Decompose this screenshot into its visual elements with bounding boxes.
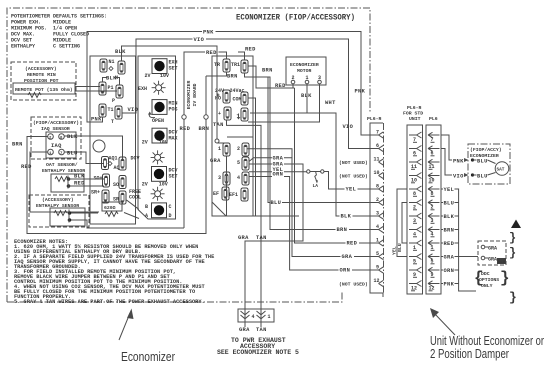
- svg-text:TAN: TAN: [256, 235, 267, 241]
- svg-text:BRN: BRN: [444, 228, 455, 234]
- svg-text:MOTOR: MOTOR: [297, 68, 312, 74]
- svg-text:3: 3: [318, 75, 321, 81]
- svg-text:REMOTE POT (135 Ohm): REMOTE POT (135 Ohm): [15, 87, 73, 93]
- std unit pin 10: [409, 173, 422, 184]
- PL6 pin 4: [428, 227, 440, 238]
- plug circle on BLK wire: [215, 139, 219, 143]
- svg-text:}: }: [509, 246, 516, 260]
- svg-text:BLU: BLU: [271, 200, 282, 206]
- 620 resistor zigzag: [105, 212, 118, 217]
- std unit pin 11: [409, 159, 422, 170]
- svg-text:}: }: [500, 269, 510, 287]
- OAT sensor box: [51, 174, 84, 192]
- svg-text:ORN: ORN: [444, 268, 455, 274]
- svg-text:GRA: GRA: [238, 235, 249, 241]
- sat circle: [495, 162, 509, 176]
- svg-text:BLK: BLK: [106, 76, 117, 82]
- svg-text:(NOT USED): (NOT USED): [339, 282, 368, 288]
- terminal N: [118, 61, 125, 74]
- wire RED from TR up to left board edge: [184, 52, 227, 228]
- DCV pot: [151, 150, 165, 164]
- wire RED OAT to SO: [70, 185, 104, 187]
- svg-text:10V: 10V: [159, 182, 168, 188]
- PL6 pin 7: [428, 132, 440, 143]
- enthalpy sensor resistor: [54, 211, 67, 216]
- svg-text:OPTIONS: OPTIONS: [479, 277, 499, 283]
- terminal T1: [99, 104, 106, 117]
- PL6 pin 9: [428, 267, 440, 278]
- svg-text:EXH: EXH: [138, 86, 147, 92]
- terminal P: [116, 85, 123, 98]
- svg-text:GRA: GRA: [210, 158, 221, 164]
- std unit pin 4: [409, 227, 422, 238]
- economizer notes text: [14, 239, 214, 305]
- svg-text:IV BOARD: IV BOARD: [192, 83, 198, 106]
- wire RED TR1 stub: [238, 52, 245, 60]
- receptacle gra 1: [481, 245, 485, 249]
- svg-text:YEL: YEL: [444, 187, 455, 193]
- svg-text:24Vac: 24Vac: [230, 88, 245, 94]
- sat splice top: [471, 158, 474, 161]
- wire BLU from IAQ 7 to AQ: [64, 152, 104, 164]
- svg-text:BLU: BLU: [67, 150, 78, 156]
- IAQ pin 7: [59, 149, 65, 155]
- PL6 stub RED: [441, 242, 459, 244]
- wire PNK from T1 up over to pin 6: [87, 32, 379, 136]
- GRA wire from terminal 1 down: [226, 157, 228, 217]
- wires SR+/SR to 620: [106, 202, 123, 205]
- svg-text:C SETTING: C SETTING: [53, 44, 80, 50]
- terminal 2: [242, 143, 249, 156]
- svg-text:T1: T1: [108, 107, 114, 113]
- wire remote pot to P1: [75, 86, 100, 88]
- svg-text:B: B: [145, 204, 148, 210]
- svg-text:ORN: ORN: [273, 172, 284, 178]
- svg-text:ECONOMIZER (FIOP/ACCESSORY): ECONOMIZER (FIOP/ACCESSORY): [236, 14, 355, 23]
- arrow to economizer: [119, 313, 130, 340]
- wire from COM down: [248, 98, 256, 216]
- wire TAN from plus terminal down to power exhaust: [227, 120, 262, 327]
- svg-text:11: 11: [374, 157, 380, 163]
- svg-text:P1: P1: [108, 85, 114, 91]
- EXH pot: [152, 81, 166, 95]
- terminal T: [115, 106, 122, 119]
- svg-text:OAT SENSOR/: OAT SENSOR/: [46, 162, 78, 168]
- svg-text:}: }: [509, 231, 516, 245]
- svg-text:TR1: TR1: [231, 62, 240, 68]
- svg-text:OPEN: OPEN: [152, 118, 164, 124]
- terminal SO+: [103, 174, 110, 187]
- svg-text:C: C: [169, 204, 172, 210]
- terminal 1: [223, 143, 230, 156]
- PL6-R pin 4: [376, 224, 384, 233]
- svg-text:2: 2: [237, 146, 240, 152]
- svg-text:2V: 2V: [145, 73, 151, 79]
- terminal N1: [100, 59, 107, 72]
- PL6-R std unit connector body: [407, 125, 423, 294]
- fiop/accessory IAQ sensor dashed box: [31, 117, 81, 159]
- wire PNK pl6 pin7 to sat box: [441, 135, 452, 160]
- chevron 4: [241, 311, 250, 319]
- svg-text:BRN: BRN: [337, 227, 348, 233]
- svg-text:EF1: EF1: [229, 192, 238, 198]
- TR terminal box: [212, 56, 253, 216]
- wire BRN TR1 down to pin 4: [245, 73, 379, 230]
- svg-text:BRN: BRN: [262, 68, 273, 74]
- PL6 pin 6: [428, 146, 440, 157]
- svg-text:RED: RED: [275, 83, 286, 89]
- std unit pin 8: [409, 186, 422, 197]
- wire enthalpy top to 620 area: [71, 212, 98, 214]
- IAQ sensor box: [46, 132, 76, 158]
- divider line under 24V terminals: [227, 136, 253, 138]
- std unit pin 1: [409, 240, 422, 251]
- OAT sensor node RED: [67, 184, 71, 188]
- svg-text:PNK: PNK: [355, 89, 366, 95]
- terminal EF1: [241, 188, 248, 201]
- ABCD knob: [152, 203, 167, 218]
- economizer motor box: [286, 57, 326, 85]
- svg-text:BLK: BLK: [74, 174, 85, 180]
- svg-text:VIO: VIO: [453, 173, 464, 179]
- svg-text:TAN: TAN: [213, 122, 224, 128]
- arrow to unit connector: [434, 313, 455, 335]
- PL6 stub BRN: [441, 229, 459, 231]
- BLU jumper on std connector: [402, 203, 407, 244]
- wire BLU terminal 2 down to pin 2: [268, 78, 379, 203]
- svg-text:5: 5: [237, 160, 240, 166]
- svg-text:BRN: BRN: [227, 73, 238, 79]
- wire RED from IAQ 1 to SR+ area: [30, 152, 99, 212]
- remote pot box: [13, 83, 75, 94]
- svg-text:MAX: MAX: [169, 136, 178, 142]
- svg-text:PL6: PL6: [429, 116, 438, 122]
- svg-text:GRA: GRA: [444, 255, 455, 261]
- wire YEL terminal 5 to LA switch to pin 8: [249, 171, 307, 173]
- svg-text:BLU: BLU: [477, 173, 488, 179]
- wire ORN terminal 4 down to pin 9: [249, 177, 379, 271]
- PL6 connector body: [426, 125, 441, 294]
- PL6-R pin 10: [374, 170, 384, 179]
- svg-text:2V: 2V: [142, 140, 148, 146]
- svg-text:620Ω: 620Ω: [104, 205, 116, 211]
- wire enthalpy bottom around to SR: [71, 220, 184, 228]
- PL6 pin 11: [428, 159, 440, 170]
- svg-text:YEL: YEL: [346, 187, 357, 193]
- std unit pin 12: [409, 281, 422, 292]
- PL6-R pin 9: [376, 265, 384, 274]
- OAT sensor resistor: [55, 177, 68, 182]
- svg-text:LA: LA: [313, 183, 319, 189]
- plug circle on RED wire: [182, 115, 186, 119]
- svg-text:BRN: BRN: [12, 142, 23, 148]
- svg-text:2V: 2V: [142, 182, 148, 188]
- gra receptacles dashed box: [478, 241, 506, 265]
- svg-text:BRN: BRN: [199, 126, 210, 132]
- terminal SR: [119, 191, 126, 204]
- IAQ pin 1: [48, 149, 54, 155]
- wire VIO pl6 pin6 to sat box: [441, 149, 452, 176]
- wire VIO from T up over to pin 7: [122, 39, 379, 149]
- LA switch: [307, 170, 310, 173]
- board knob box: [138, 56, 176, 219]
- MIN POS knob: [152, 100, 167, 115]
- terminal AQ: [119, 157, 126, 170]
- svg-text:5. GRAY & TAN WIRES ARE PART O: 5. GRAY & TAN WIRES ARE PART OF THE POWE…: [14, 299, 205, 305]
- svg-text:GRA: GRA: [239, 327, 250, 333]
- svg-text:SET: SET: [169, 174, 178, 180]
- accessory remote min position pot dashed box: [11, 62, 76, 100]
- accessory enthalpy sensor dashed box: [29, 195, 89, 227]
- svg-text:ENTHALPY: ENTHALPY: [11, 44, 35, 50]
- sat splice bottom: [471, 173, 474, 176]
- svg-text:POS: POS: [169, 107, 178, 113]
- svg-text:RED: RED: [74, 181, 85, 187]
- wire WHT motor 3 to plus: [248, 84, 320, 122]
- svg-text:BLU: BLU: [477, 158, 488, 164]
- EXH SET knob: [152, 59, 167, 74]
- svg-text:FOR STD: FOR STD: [403, 111, 423, 117]
- svg-text:D: D: [169, 213, 172, 219]
- PL6-R pin 2: [376, 197, 384, 206]
- PL6 stub YEL: [441, 189, 476, 291]
- PL6 pin 3: [428, 213, 440, 224]
- motor pin 1: [305, 80, 309, 84]
- svg-text:EF: EF: [213, 191, 219, 197]
- svg-text:10V: 10V: [159, 140, 168, 146]
- svg-text:(ACCESSORY): (ACCESSORY): [42, 197, 74, 203]
- terminal plus: [224, 107, 231, 120]
- svg-text:4: 4: [252, 314, 255, 320]
- svg-text:3: 3: [218, 175, 221, 181]
- filled triangle marker: [511, 220, 521, 229]
- svg-text:IAQ: IAQ: [51, 143, 62, 149]
- svg-text:1: 1: [268, 314, 271, 320]
- svg-text:BLK: BLK: [67, 134, 78, 140]
- terminal 3: [223, 172, 230, 185]
- svg-text:COOL: COOL: [129, 195, 141, 201]
- svg-text:VIO: VIO: [128, 107, 139, 113]
- wire remote pot to P: [75, 90, 117, 92]
- svg-text:BLK: BLK: [301, 93, 312, 99]
- svg-text:PNK: PNK: [453, 158, 464, 164]
- enthalpy node top: [68, 211, 72, 215]
- AQ1 diamond: [108, 162, 112, 166]
- PL6-R economizer connector body: [370, 123, 383, 297]
- svg-text:RED: RED: [180, 126, 191, 132]
- PL6 stub ORN: [441, 269, 459, 271]
- svg-text:SET: SET: [169, 66, 178, 72]
- svg-text:BLU: BLU: [444, 201, 455, 207]
- svg-text:RED: RED: [347, 241, 358, 247]
- svg-text:(FIOP/ACCESSORY): (FIOP/ACCESSORY): [33, 120, 79, 126]
- PL6-R pin 6: [376, 143, 384, 152]
- enthalpy node bottom: [68, 218, 72, 222]
- PL6 pin 2: [428, 200, 440, 211]
- PL6 stub BLK: [441, 215, 459, 217]
- IAQ pin 8: [59, 134, 65, 140]
- PL6-R pin 11: [374, 157, 384, 166]
- PL6-R pin 7: [376, 130, 384, 139]
- PL6 pin 12: [428, 281, 440, 292]
- diagonal wires from SR to knob box: [124, 200, 139, 219]
- svg-text:(FIOP/ACCY): (FIOP/ACCY): [470, 147, 502, 153]
- svg-text:SO+: SO+: [94, 176, 103, 182]
- svg-text:2 Position Damper: 2 Position Damper: [430, 346, 509, 361]
- svg-text:N1: N1: [109, 59, 115, 65]
- PL6-R pin 3: [376, 211, 384, 220]
- svg-text:4: 4: [237, 175, 240, 181]
- board terminal box: [90, 56, 136, 224]
- svg-text:10V: 10V: [160, 73, 169, 79]
- PL6 pin 5: [428, 254, 440, 265]
- svg-text:(NOT USED): (NOT USED): [339, 160, 368, 166]
- wire BLK from IAQ 8 to AQ1: [64, 136, 122, 159]
- svg-text:WHT: WHT: [325, 100, 336, 106]
- svg-text:2: 2: [292, 75, 295, 81]
- DCV MAX knob: [152, 128, 167, 143]
- DCV SET knob: [152, 167, 167, 182]
- svg-text:AQ: AQ: [114, 165, 120, 171]
- svg-text:BLU: BLU: [397, 243, 403, 252]
- PL6 pin 8: [428, 186, 440, 197]
- svg-text:PNK: PNK: [444, 282, 455, 288]
- svg-text:BLK: BLK: [341, 214, 352, 220]
- terminal 24V HOT: [223, 90, 230, 103]
- svg-text:UNIT: UNIT: [409, 116, 421, 122]
- svg-text:(NOT USED): (NOT USED): [339, 174, 368, 180]
- svg-text:COM: COM: [233, 97, 242, 103]
- wire GRA terminal 5 right and down to pin 5: [247, 149, 379, 257]
- ground mark under COM: [238, 114, 240, 118]
- std unit pin 2: [409, 200, 422, 211]
- std unit pin 3: [409, 213, 422, 224]
- wire BRN loop from IAQ 2 around bottom to board: [27, 76, 206, 234]
- svg-text:PNK: PNK: [203, 29, 214, 35]
- terminal COM: [241, 92, 248, 105]
- wire BRN TR to loop: [206, 72, 227, 76]
- YEL jumper on std connector: [397, 189, 407, 257]
- svg-text:12: 12: [374, 278, 380, 284]
- svg-text:BLK: BLK: [115, 49, 126, 55]
- svg-text:GRA: GRA: [342, 254, 353, 260]
- wire BLK from N up over to terminal 1: [122, 46, 218, 139]
- FREE COOL pot: [151, 187, 165, 201]
- wire BLK OAT to SO+: [70, 178, 104, 180]
- svg-text:PL6-R: PL6-R: [407, 105, 422, 111]
- terminal EF: [222, 187, 229, 200]
- 620 ohm resistor box: [102, 202, 122, 211]
- svg-text:P: P: [112, 98, 115, 104]
- wire BLK motor 1 to minus and down to pin 3: [250, 84, 379, 216]
- svg-text:24V: 24V: [215, 88, 224, 94]
- svg-text:SAT: SAT: [497, 168, 505, 173]
- svg-text:ORN: ORN: [340, 268, 351, 274]
- svg-text:1: 1: [218, 146, 221, 152]
- svg-text:BLU: BLU: [498, 261, 506, 265]
- svg-text:10: 10: [374, 170, 380, 176]
- std unit pin 9: [409, 267, 422, 278]
- svg-text:1: 1: [306, 75, 309, 81]
- svg-text:SEE ECONOMIZER NOTE 5: SEE ECONOMIZER NOTE 5: [217, 349, 299, 356]
- svg-text:+: +: [218, 111, 221, 117]
- potentiometer defaults settings text: [11, 14, 107, 50]
- std unit pin 5: [409, 254, 422, 265]
- plug circle on BRN loop wire: [204, 115, 208, 119]
- PL6 stub PNK: [441, 283, 459, 285]
- svg-text:SO: SO: [113, 182, 119, 188]
- svg-text:RED: RED: [245, 47, 256, 53]
- svg-text:TAN: TAN: [256, 327, 267, 333]
- open curved arrow: [149, 113, 155, 118]
- sat fiop/accy economizer dashed box: [468, 144, 510, 184]
- svg-text:VIO: VIO: [194, 37, 205, 43]
- economizer dash-dot boundary: [7, 8, 370, 302]
- terminal minus: [241, 108, 248, 121]
- bottom extension of terminal box: [212, 202, 299, 216]
- PL6 stub BLU: [441, 202, 459, 204]
- wire RED TR1 to motor 2 and down to pin 1: [248, 66, 379, 243]
- terminal SR+: [102, 190, 109, 203]
- svg-text:YEL: YEL: [392, 246, 398, 255]
- svg-text:ECONOMIZER: ECONOMIZER: [290, 62, 319, 68]
- terminal P1: [99, 82, 106, 95]
- small blu box: [497, 258, 506, 264]
- PL6-R pin 12: [374, 278, 384, 287]
- PL6 stub GRA: [441, 256, 478, 258]
- svg-text:Economizer: Economizer: [121, 349, 176, 364]
- PL6-R pin 5: [376, 251, 384, 260]
- remote pot resistor: [28, 93, 41, 98]
- receptacle gra 2: [481, 256, 485, 260]
- svg-text:AQ1: AQ1: [109, 156, 118, 162]
- svg-text:RED: RED: [206, 50, 217, 56]
- svg-text:REMOTE MIN: REMOTE MIN: [27, 72, 56, 78]
- dash-dot border through PL6-R connector: [383, 123, 385, 293]
- plus mark near 24V: [217, 94, 220, 97]
- svg-text:ECONOMIZER: ECONOMIZER: [186, 80, 192, 109]
- board mounting hole left: [93, 140, 105, 152]
- PL6 pin 1: [428, 240, 440, 251]
- svg-text:DCV: DCV: [131, 156, 140, 162]
- PL6 pin 10: [428, 173, 440, 184]
- svg-text:}: }: [509, 290, 517, 305]
- svg-text:RED: RED: [444, 241, 455, 247]
- IAQ pin 2: [48, 134, 54, 140]
- N1 diamond: [109, 67, 113, 71]
- svg-text:GRA: GRA: [488, 257, 497, 263]
- chevron 1: [257, 311, 266, 319]
- PL6-R pin 1: [376, 238, 384, 247]
- svg-text:(ACCESSORY): (ACCESSORY): [25, 66, 57, 72]
- svg-text:PL6-R: PL6-R: [367, 116, 382, 122]
- terminal 5: [242, 157, 249, 170]
- enthalpy sensor box: [50, 208, 85, 226]
- wire GRA terminal 5 down to power exhaust: [245, 164, 303, 327]
- std unit pin 6: [409, 146, 422, 157]
- svg-text:DDC: DDC: [481, 271, 490, 277]
- svg-text:SR+: SR+: [91, 190, 100, 196]
- terminal 4: [242, 172, 249, 185]
- BLK jumper P1 to P: [103, 78, 120, 86]
- terminal AQ1: [102, 157, 109, 170]
- svg-text:RED: RED: [21, 164, 32, 170]
- svg-text:GRA: GRA: [488, 246, 497, 252]
- OAT sensor node BLK: [67, 177, 71, 181]
- terminal SO: [119, 176, 126, 189]
- power exhaust plug box: [238, 309, 274, 322]
- svg-text:T: T: [111, 119, 114, 125]
